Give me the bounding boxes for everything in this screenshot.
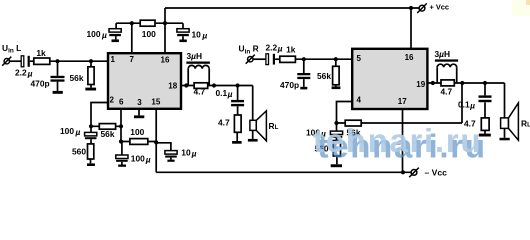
wire 10u bottom branch	[156, 143, 171, 151]
ground bar 56k left	[85, 88, 96, 91]
capacitor 10u bottom	[165, 151, 177, 162]
wire top +Vcc rail	[165, 7, 420, 9]
capacitor 470p right	[297, 73, 310, 89]
wire 100u bottom gnd stem	[121, 162, 123, 165]
resistor 56k bottom left horizontal	[99, 124, 115, 130]
wire 56k horizontal bottom left	[91, 125, 121, 127]
svg-text:100: 100	[130, 127, 144, 137]
svg-text:6: 6	[119, 98, 124, 107]
svg-text:4.7: 4.7	[218, 118, 230, 128]
node dot 56k right	[334, 57, 338, 61]
wire 2.2u to 1k right	[275, 58, 280, 60]
resistor 1k right	[280, 56, 296, 62]
svg-text:56k: 56k	[317, 71, 331, 81]
resistor 560 right	[333, 141, 340, 157]
capacitor 100u right	[330, 131, 342, 167]
inductor L2 core bar	[435, 59, 458, 61]
svg-text:1k: 1k	[286, 45, 296, 55]
wire pin15 vertical	[155, 109, 157, 173]
wire 560 right gnd stem	[336, 156, 338, 164]
wire 1k right to IC pin5	[295, 58, 352, 60]
svg-text:RL: RL	[521, 119, 530, 129]
svg-text:Uin R: Uin R	[239, 44, 259, 56]
svg-text:2: 2	[110, 96, 115, 105]
svg-text:+ Vcc: + Vcc	[430, 3, 450, 12]
resistor 4.7 left zobel	[234, 115, 241, 132]
node dot zobel right	[483, 81, 487, 85]
svg-text:19: 19	[416, 80, 425, 89]
wire 10u top gnd stem	[182, 36, 184, 40]
wire 100u right to 560	[336, 138, 338, 141]
wire pin19 output row	[427, 82, 504, 84]
wire left speaker drop	[252, 86, 254, 121]
svg-text:4: 4	[357, 96, 362, 105]
node dot top row left	[130, 21, 134, 25]
capacitor 100u bottom left	[85, 132, 97, 166]
svg-text:18: 18	[168, 82, 177, 91]
node dot L1 left	[184, 83, 188, 87]
svg-text:1: 1	[111, 55, 116, 64]
svg-text:15: 15	[151, 98, 160, 107]
resistor 4.7 right zobel	[481, 118, 489, 130]
resistor 4.7 left inline	[194, 83, 208, 89]
svg-text:4.7: 4.7	[441, 87, 453, 97]
wire 100u right stem	[336, 123, 338, 131]
wire 470p left gnd stem	[57, 82, 59, 91]
svg-text:470p: 470p	[280, 80, 299, 90]
node dot 56k left	[89, 59, 93, 63]
wire pin16 right IC vertical	[410, 8, 412, 49]
wire 56k right gnd stem	[335, 85, 337, 87]
capacitor 2.2u right series	[266, 54, 275, 65]
IC U2 right channel	[352, 49, 427, 109]
connector -Vcc	[409, 168, 419, 178]
svg-text:RL: RL	[269, 121, 279, 131]
ground bar pin3	[134, 115, 144, 118]
resistor 56k right vertical	[333, 66, 340, 85]
resistor 56k left vertical	[88, 67, 94, 85]
wire pin7 vertical	[131, 23, 133, 53]
svg-text:560: 560	[72, 147, 86, 157]
wire bottom -Vcc rail	[156, 171, 411, 173]
resistor 100 top	[140, 20, 155, 26]
node dot L2 left	[431, 81, 435, 85]
node dot top row right	[163, 21, 167, 25]
svg-text:0.1µ: 0.1µ	[216, 88, 233, 99]
svg-text:– Vcc: – Vcc	[425, 167, 448, 177]
node dot zobel left	[236, 83, 240, 87]
wire 0.1u left stem	[237, 86, 239, 100]
resistor 100 bottom	[130, 139, 148, 145]
ground bar 56k right	[332, 86, 341, 89]
svg-text:100µ: 100µ	[131, 154, 151, 165]
wire 10u bottom gnd stem	[170, 158, 172, 160]
wire left input	[10, 60, 22, 62]
svg-text:100µ: 100µ	[60, 126, 80, 137]
wire 4.7 left zobel gnd stem	[236, 132, 238, 141]
node dot +Vcc	[409, 6, 413, 10]
node dot pin4 bottom	[334, 121, 338, 125]
ground bar right speaker	[500, 138, 510, 141]
wire feedback riser to output	[461, 83, 463, 123]
svg-text:2.2µ: 2.2µ	[15, 67, 33, 78]
wire pin2 left	[91, 103, 108, 127]
wire right input	[253, 58, 266, 60]
svg-text:16: 16	[405, 53, 414, 62]
capacitor 100u top	[109, 29, 121, 42]
ground bar left speaker	[248, 139, 258, 142]
svg-text:10µ: 10µ	[192, 30, 208, 41]
wire inductor right riser	[208, 69, 210, 86]
node dot L1 right	[212, 83, 216, 87]
wire 470p right stem	[303, 59, 305, 73]
wire 100u botleft stem	[90, 126, 92, 132]
wire 470p right gnd stem	[303, 79, 305, 87]
node dot pin6-100	[119, 139, 123, 143]
node dot 470p left	[55, 59, 59, 63]
wire right speaker drop	[504, 83, 506, 118]
wire 0.1u right to 4.7	[484, 102, 486, 118]
wire 56k left gnd stem	[90, 85, 92, 88]
node dot 56k-pin6	[119, 124, 123, 128]
wire 100u bottom stem	[121, 142, 123, 156]
wire 4.7 right zobel gnd stem	[484, 130, 486, 133]
wire pin16 left IC vertical	[164, 8, 166, 53]
resistor 56k right feedback	[345, 120, 361, 126]
speaker RL left	[250, 111, 267, 141]
svg-text:1k: 1k	[36, 48, 46, 58]
wire 0.1u right stem	[484, 83, 486, 95]
resistor 560 left	[88, 144, 94, 159]
wire 100u top stem	[115, 23, 117, 29]
wire inductor right channel right riser	[456, 67, 458, 83]
resistor 1k left	[34, 58, 50, 64]
svg-text:Uin L: Uin L	[2, 43, 21, 55]
wire pin4 right	[337, 102, 353, 124]
wire 470p left stem	[57, 61, 59, 76]
svg-text:tehnari.ru: tehnari.ru	[313, 122, 482, 159]
wire pin18 output row	[181, 85, 253, 87]
svg-text:100: 100	[142, 29, 156, 39]
node dot pin2 bottom	[89, 124, 93, 128]
capacitor 10u top	[177, 29, 189, 42]
svg-text:4.7: 4.7	[194, 87, 206, 97]
connector Uin L	[2, 57, 11, 66]
svg-text:470p: 470p	[31, 79, 50, 89]
svg-text:16: 16	[161, 56, 170, 65]
corner tint	[512, 0, 530, 16]
wire pin17 vertical	[402, 109, 404, 172]
capacitor 2.2u left series	[21, 56, 30, 67]
wire 1k to IC pin1	[50, 60, 108, 62]
svg-text:100µ: 100µ	[87, 29, 107, 40]
node dot 470p right	[302, 57, 306, 61]
wire 56k left vertical top	[90, 61, 92, 67]
svg-text:2.2µ: 2.2µ	[266, 42, 283, 53]
wire right speaker gnd stem	[504, 128, 506, 137]
wire pin3 stem	[138, 109, 140, 116]
svg-text:56k: 56k	[70, 73, 84, 83]
capacitor 0.1u right	[479, 95, 492, 136]
inductor L1 core bar	[186, 62, 210, 64]
wire inductor right channel left riser	[436, 67, 438, 83]
wire 10u top stem	[182, 23, 184, 29]
svg-text:3µH: 3µH	[187, 51, 203, 61]
wire top decoupling row	[116, 22, 183, 24]
svg-text:5: 5	[357, 54, 362, 63]
wire 100u botleft to 560	[90, 139, 92, 144]
svg-text:3: 3	[137, 98, 142, 107]
node dot -Vcc	[401, 170, 405, 174]
capacitor 100u bottom mid	[116, 155, 128, 167]
svg-text:56k: 56k	[101, 129, 115, 139]
wire pin6 vertical	[120, 109, 122, 142]
inductor L1 3uH coil	[188, 65, 209, 68]
svg-text:0.1µ: 0.1µ	[458, 100, 475, 111]
node dot L2 right feedback	[460, 81, 464, 85]
svg-text:17: 17	[398, 97, 407, 106]
wire 560 left gnd stem	[90, 159, 92, 163]
speaker RL right	[501, 103, 519, 140]
wire 56k right vertical top	[335, 59, 337, 66]
capacitor 0.1u left	[231, 100, 244, 144]
wire 0.1u left to 4.7	[237, 106, 239, 115]
wire 2.2u to 1k left	[30, 60, 34, 62]
inductor L2 3uH coil	[437, 64, 457, 67]
svg-text:3µH: 3µH	[435, 49, 451, 59]
resistor 4.7 right inline	[441, 80, 454, 86]
pin number labels	[110, 53, 426, 107]
wire 100u top gnd stem	[115, 36, 117, 39]
wire 100 bottom resistor row	[121, 141, 156, 143]
svg-text:10µ: 10µ	[181, 148, 196, 159]
wire inductor left riser	[187, 69, 189, 86]
connector Uin R	[246, 55, 255, 64]
wire left speaker gnd stem	[252, 130, 254, 139]
svg-text:7: 7	[130, 55, 135, 64]
capacitor 470p left	[51, 76, 65, 94]
connector +Vcc	[417, 3, 427, 13]
node dot pin15-100	[154, 140, 158, 144]
IC U1 left channel	[108, 53, 181, 109]
wire 56k right feedback row	[337, 122, 463, 124]
